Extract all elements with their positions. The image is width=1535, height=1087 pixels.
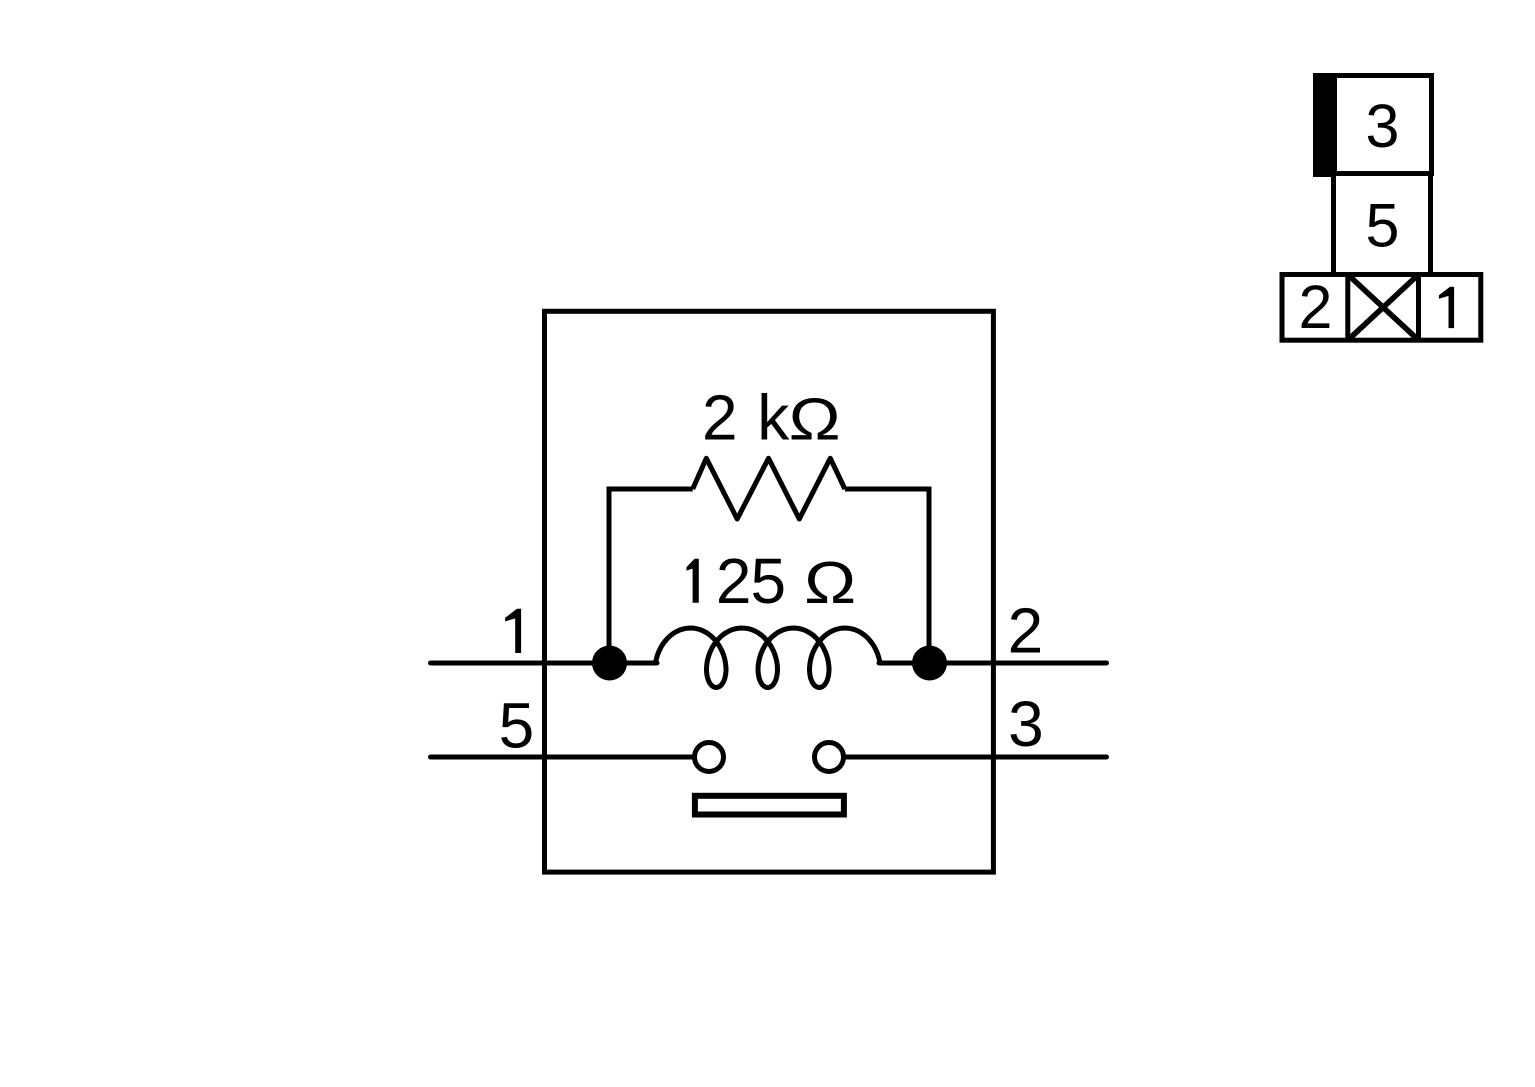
relay body outline K1 xyxy=(545,311,994,872)
svg-text:5: 5 xyxy=(1366,191,1400,259)
svg-text:3: 3 xyxy=(1008,688,1044,760)
svg-text:3: 3 xyxy=(1366,92,1400,160)
svg-text:k: k xyxy=(757,382,790,454)
svg-text:2: 2 xyxy=(1008,594,1044,666)
svg-text:5: 5 xyxy=(499,689,535,761)
wire resistor branch left vertical xyxy=(609,489,693,663)
coil value label 125 Ohm xyxy=(686,545,856,617)
connector pinout: cavity box 3 xyxy=(1335,76,1432,174)
coil L1 (relay coil) xyxy=(656,628,881,688)
svg-text:Ω: Ω xyxy=(804,549,856,616)
connector pinout: cavity label 1 xyxy=(1439,287,1454,328)
armature contact bar xyxy=(695,796,844,815)
wire pin1 lead xyxy=(431,661,658,666)
connector pinout: black keying tab xyxy=(1313,73,1335,177)
connector pinout: divider right xyxy=(1416,275,1421,341)
contact terminal circle right (pin3) xyxy=(815,743,844,772)
junction node right (pin2/coil/resistor) xyxy=(912,646,947,681)
resistor R1 zigzag xyxy=(693,458,845,519)
wire pin3 lead xyxy=(846,755,1107,760)
wire pin2 lead xyxy=(879,661,1107,666)
svg-text:2: 2 xyxy=(702,382,738,454)
svg-text:2: 2 xyxy=(716,545,752,617)
pin label 1 xyxy=(505,609,521,653)
wire pin5 lead xyxy=(431,755,693,760)
connector pinout: blocked cavity X diagonal 1 xyxy=(1348,275,1419,341)
wire resistor branch right vertical xyxy=(845,489,929,663)
connector pinout: blocked cavity X diagonal 2 xyxy=(1348,275,1419,341)
resistor value label 2 kOhm xyxy=(702,382,841,454)
connector pinout: divider left xyxy=(1345,275,1350,341)
svg-text:5: 5 xyxy=(751,545,787,617)
svg-text:Ω: Ω xyxy=(789,385,841,452)
junction node left (pin1/coil/resistor) xyxy=(592,646,627,681)
connector pinout: cavity box 5 xyxy=(1334,174,1431,275)
contact terminal circle left (pin5) xyxy=(695,743,724,772)
connector pinout: bottom row outline xyxy=(1282,275,1481,341)
svg-text:2: 2 xyxy=(1299,273,1333,341)
